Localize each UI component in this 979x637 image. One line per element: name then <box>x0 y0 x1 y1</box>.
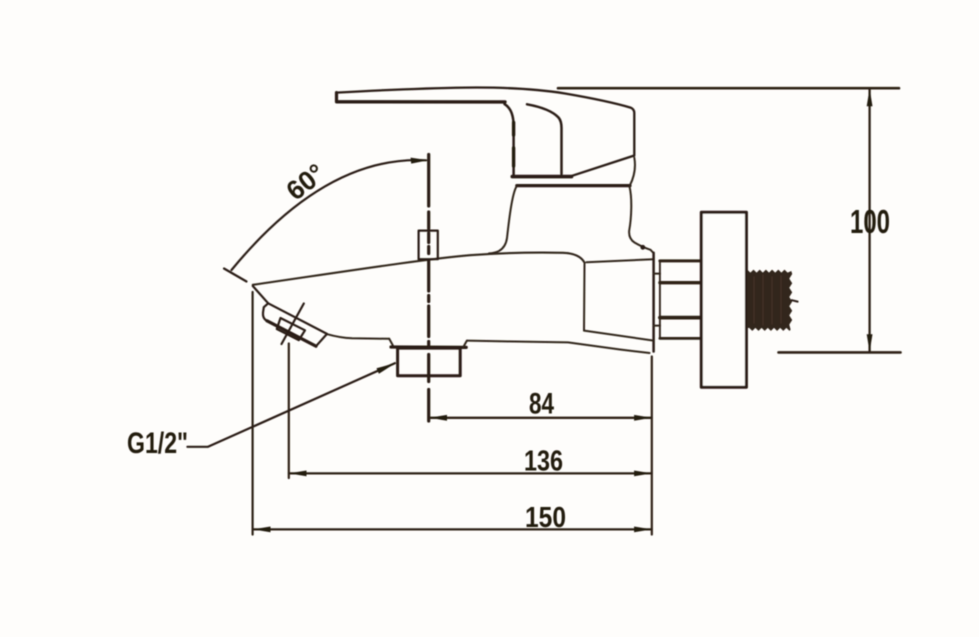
cartridge dome top thick line <box>517 184 630 187</box>
handle lever blade top edge <box>337 88 635 177</box>
shower outlet lip bottom thick <box>391 345 466 349</box>
handle neck left edge <box>505 104 514 176</box>
handle neck inner curve <box>527 104 562 174</box>
body bottom line right of outlet <box>467 341 650 353</box>
body tail upper line <box>584 331 653 341</box>
dimension line 100 vertical <box>868 89 870 352</box>
svg-text:G1/2": G1/2" <box>127 427 188 460</box>
extension line right for dimensions <box>651 357 653 535</box>
arrow 100 bottom <box>867 334 873 351</box>
extension line top for 100 <box>558 87 899 90</box>
G1/2 leader line <box>187 363 394 447</box>
dome junction dot <box>640 245 645 250</box>
handle lever underside thick line <box>337 100 505 103</box>
60-degree tick at arc start <box>224 269 247 282</box>
cartridge dome left edge <box>489 187 517 254</box>
spout cut face at tip <box>253 286 268 303</box>
hex nut upper flat line <box>660 281 701 284</box>
handle bottom thick line <box>512 175 571 179</box>
hex nut bottom edge <box>660 337 701 340</box>
arrow 84 left <box>430 415 448 421</box>
shower outlet lip right slant <box>463 341 467 347</box>
G1/2 leader arrowhead <box>377 363 397 374</box>
handle neck left edge dark segments <box>512 123 515 167</box>
thread end tick <box>792 300 798 301</box>
diverter knob rectangle on spout <box>419 231 438 260</box>
aerator axis diagonal line <box>282 304 304 345</box>
wall flange rectangle <box>701 212 746 387</box>
handle to dome right connector <box>630 158 635 186</box>
dimension line 150 <box>253 528 652 530</box>
vertical centerline dashes <box>427 155 430 422</box>
svg-text:136: 136 <box>524 446 563 478</box>
extension line left for 150 <box>252 292 254 535</box>
body cone front edge <box>583 264 586 331</box>
extension line bottom for 100 <box>779 351 901 354</box>
handle lever tip left edge <box>335 93 338 102</box>
dimension line 84 <box>430 417 652 419</box>
hex nut top edge <box>660 259 701 262</box>
dimension line 136 <box>289 472 652 474</box>
arrow 100 top <box>867 89 873 106</box>
body bottom line left of outlet <box>327 334 389 339</box>
thread streaks <box>754 275 781 325</box>
svg-text:150: 150 <box>525 502 566 534</box>
arrow 136 left <box>289 471 307 477</box>
60-degree arc arrowhead <box>411 158 429 164</box>
cartridge dome right edge <box>629 187 653 253</box>
aerator inner box <box>277 318 305 340</box>
shower outlet lip left slant <box>389 339 393 345</box>
arrow 84 right <box>634 415 652 421</box>
body right edge vertical <box>652 253 655 352</box>
60-degree arc <box>232 160 427 270</box>
extension line left for 136 <box>288 344 290 479</box>
arrow 150 right <box>634 527 652 533</box>
hex nut left ticks <box>654 274 660 326</box>
hex nut lower flat line <box>660 316 701 320</box>
svg-text:100: 100 <box>850 203 890 240</box>
threaded nipple block <box>747 270 792 331</box>
svg-text:84: 84 <box>529 388 554 421</box>
aerator outer box <box>263 303 327 346</box>
body near-horizontal line to hex <box>587 259 654 262</box>
svg-text:60°: 60° <box>281 158 331 206</box>
shower outlet rectangle <box>398 348 461 376</box>
hex nut left edge <box>659 261 661 338</box>
arrow 136 right <box>634 471 652 477</box>
aerator bottom thick edge <box>267 321 316 346</box>
arrow 150 left <box>253 527 271 533</box>
spout top edge and body top line <box>253 253 585 285</box>
